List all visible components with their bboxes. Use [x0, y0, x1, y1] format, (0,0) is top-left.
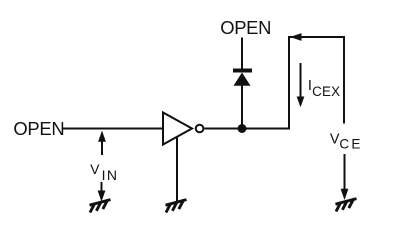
svg-text:CEX: CEX: [312, 84, 340, 99]
svg-text:V: V: [330, 132, 340, 148]
svg-text:OPEN: OPEN: [220, 17, 271, 38]
svg-text:CE: CE: [339, 136, 362, 151]
svg-text:V: V: [90, 162, 100, 177]
svg-text:IN: IN: [102, 167, 119, 183]
svg-text:OPEN: OPEN: [13, 118, 64, 139]
